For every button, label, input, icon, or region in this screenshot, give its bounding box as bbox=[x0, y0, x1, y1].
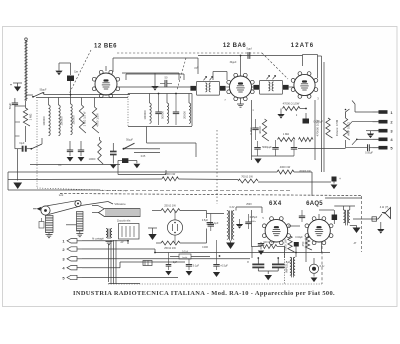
capacitor C2 bbox=[22, 146, 24, 152]
svg-text:50μμF: 50μμF bbox=[126, 139, 133, 142]
capacitor C7 bbox=[173, 111, 179, 113]
wire grid bus bbox=[44, 94, 131, 96]
capacitor C16 bbox=[367, 144, 369, 151]
jack bbox=[370, 218, 378, 220]
svg-text:1μF: 1μF bbox=[173, 261, 178, 264]
junction dots bbox=[70, 94, 72, 96]
ground G17 bbox=[377, 229, 384, 234]
wire PT right bbox=[235, 207, 237, 211]
svg-text:20000: 20000 bbox=[183, 111, 187, 119]
ground G6 bbox=[237, 103, 244, 105]
svg-text:4700 1/2W: 4700 1/2W bbox=[95, 113, 99, 127]
wire y148 bbox=[298, 148, 346, 150]
capacitor C6 bbox=[155, 111, 161, 113]
wire box inner bbox=[126, 73, 184, 75]
resistor R3 bbox=[92, 107, 99, 133]
ground G15 bbox=[236, 224, 243, 229]
dotted box left edge bbox=[36, 100, 38, 188]
capacitor C5 bbox=[164, 80, 166, 87]
resistor R7 h bbox=[278, 138, 296, 142]
svg-text:0.05μF: 0.05μF bbox=[365, 152, 373, 155]
svg-text:NμF: NμF bbox=[20, 141, 25, 145]
svg-text:12 BE6: 12 BE6 bbox=[94, 43, 117, 49]
switch S1a bbox=[33, 93, 43, 98]
capacitor C12 v bbox=[252, 127, 258, 129]
ground G18 bbox=[264, 275, 272, 280]
svg-text:Sμμf: Sμμf bbox=[246, 47, 252, 51]
svg-text:6AQ5: 6AQ5 bbox=[306, 201, 323, 207]
terminal T4r bbox=[379, 138, 388, 142]
wire right verticals bbox=[321, 56, 323, 172]
wire bus E bbox=[8, 165, 30, 167]
resistor R6 v bbox=[262, 119, 269, 141]
wire bus B right bbox=[258, 181, 331, 183]
capacitor C20 bbox=[245, 221, 251, 223]
dash shield right bbox=[361, 196, 363, 252]
wire to ground arrow bbox=[17, 149, 19, 181]
dotted osc box bbox=[127, 94, 129, 127]
svg-text:100000: 100000 bbox=[42, 116, 46, 126]
wire T2r bbox=[352, 121, 373, 123]
wire R1 top bbox=[15, 105, 26, 107]
resistor R12 inline bbox=[277, 170, 294, 174]
dashed vertical gang bbox=[216, 130, 218, 204]
dash box power bbox=[108, 283, 322, 285]
electrolytic bank bbox=[252, 263, 264, 265]
ground G2 bbox=[55, 71, 62, 76]
resistor R11 v bbox=[343, 118, 350, 140]
switch S1b bbox=[31, 144, 42, 149]
wire t2 bbox=[82, 248, 155, 250]
wire top bus bbox=[198, 55, 303, 57]
svg-text:Zoccolo vibr.: Zoccolo vibr. bbox=[117, 220, 131, 223]
wire mid to T5 bbox=[166, 150, 340, 152]
tube V3 12AT6 bbox=[294, 74, 315, 95]
coil L5 bbox=[167, 103, 169, 123]
capacitor C-ant block bbox=[67, 76, 74, 82]
resistor R1 1M bbox=[23, 108, 30, 126]
ground G14 big bbox=[226, 243, 235, 250]
wire t4 bbox=[82, 267, 120, 269]
ground G16 bbox=[353, 228, 361, 234]
ground G12 bbox=[106, 241, 113, 243]
dial pulley big bbox=[41, 206, 50, 215]
wire OT out bbox=[351, 219, 353, 225]
transformer PT bbox=[227, 211, 229, 240]
wire bus B2 bbox=[179, 178, 239, 181]
svg-text:470000 1/2W: 470000 1/2W bbox=[316, 119, 320, 136]
coil L6 bbox=[189, 103, 191, 123]
ground G11 bbox=[76, 233, 83, 235]
resistor R10 v bbox=[326, 118, 333, 138]
wire V4-V5 bbox=[288, 230, 308, 232]
svg-text:20000 1W: 20000 1W bbox=[299, 170, 311, 173]
capacitor C28 block bbox=[122, 158, 128, 163]
svg-text:30μμF: 30μμF bbox=[230, 61, 237, 64]
coil L2 100000 bbox=[59, 105, 61, 136]
wire OT top bbox=[342, 206, 344, 210]
wire 6X4 box bbox=[251, 210, 253, 247]
wire IF1 to V2 bbox=[226, 86, 229, 88]
resistor R2 1M bbox=[79, 105, 86, 133]
wire V2 top stub bbox=[240, 56, 242, 77]
resistor RB inline bbox=[162, 177, 179, 181]
svg-text:1 MΩ 1/2 W: 1 MΩ 1/2 W bbox=[82, 111, 86, 126]
capacitor Cl1 bbox=[78, 149, 84, 151]
svg-text:250: 250 bbox=[301, 241, 305, 246]
resistor R14 h bbox=[161, 209, 180, 213]
capacitor C23b bbox=[166, 264, 172, 266]
capacitor C25 bbox=[258, 243, 264, 245]
wire osc bottom bus bbox=[128, 126, 192, 128]
svg-text:+0.5μF: +0.5μF bbox=[220, 265, 228, 268]
terminal T3r bbox=[379, 129, 388, 133]
wire bus A right bbox=[294, 171, 312, 173]
wire 6aq5 top bend bbox=[325, 195, 362, 197]
wire G3 bus bbox=[122, 72, 179, 74]
wire box top bbox=[113, 57, 198, 59]
wire T1r bbox=[355, 111, 373, 113]
svg-text:0.5 A: 0.5 A bbox=[182, 249, 188, 253]
wire left edge verticals bbox=[7, 172, 9, 190]
capacitor C27 electrolytic bbox=[110, 151, 117, 153]
wire V1 top bbox=[105, 66, 107, 71]
wire S2 out bbox=[124, 148, 149, 150]
wire bus A bbox=[8, 171, 277, 173]
wire V5 top bbox=[318, 214, 320, 219]
svg-text:50μF: 50μF bbox=[8, 102, 12, 109]
capacitor C21 bbox=[299, 215, 305, 217]
svg-text:tutti: tutti bbox=[59, 193, 64, 197]
svg-text:6.3V: 6.3V bbox=[230, 206, 235, 209]
svg-text:10000: 10000 bbox=[89, 158, 96, 161]
svg-text:INDUSTRIA RADIOTECNICA ITALI: INDUSTRIA RADIOTECNICA ITALIANA - Mod. R… bbox=[73, 290, 335, 297]
svg-text:700 Ω 1W: 700 Ω 1W bbox=[241, 175, 253, 179]
ground left of antenna bbox=[14, 87, 21, 92]
wire left verticals top bbox=[48, 98, 50, 106]
transformer OT bbox=[343, 210, 345, 223]
wire osc top bbox=[128, 93, 192, 95]
capacitor C19 bbox=[208, 224, 214, 226]
dial belt bbox=[43, 201, 76, 207]
wire IF2 to V3 bbox=[289, 86, 294, 88]
svg-text:Vibratore: Vibratore bbox=[114, 202, 126, 206]
wire bus C bbox=[8, 189, 100, 191]
wire t3 bbox=[82, 258, 250, 260]
dial arrow bbox=[37, 207, 42, 211]
capacitor C15 bbox=[291, 147, 297, 149]
svg-text:50μμF: 50μμF bbox=[40, 89, 47, 92]
wire V3 box bbox=[303, 54, 318, 56]
speaker bbox=[382, 208, 391, 219]
ground G8 bbox=[254, 159, 261, 164]
ground G7 bbox=[277, 114, 284, 119]
capacitor C1 bbox=[12, 102, 18, 104]
dashed diag mid bbox=[177, 58, 186, 90]
capacitor C24 bbox=[213, 264, 219, 266]
IF2 transformer bbox=[253, 85, 259, 90]
ground G9 bbox=[367, 134, 374, 139]
svg-text:0.1μF: 0.1μF bbox=[193, 265, 200, 268]
svg-text:12 BA6: 12 BA6 bbox=[223, 43, 247, 49]
wire G2 stem bbox=[70, 63, 72, 75]
svg-text:12AT6: 12AT6 bbox=[291, 43, 315, 49]
wire bottom right bend bbox=[321, 246, 323, 284]
capacitor C18 bbox=[207, 222, 213, 224]
svg-text:6X4: 6X4 bbox=[269, 201, 282, 207]
tube V4 6X4 bbox=[265, 219, 288, 242]
svg-text:47000 Ω 1/2W: 47000 Ω 1/2W bbox=[283, 102, 300, 106]
svg-text:250V: 250V bbox=[246, 203, 252, 206]
wire T5r long bbox=[346, 147, 368, 149]
svg-text:+: + bbox=[339, 177, 341, 181]
wire bus D dashes bbox=[60, 194, 362, 196]
svg-text:Potenz. 0.5M: Potenz. 0.5M bbox=[335, 119, 339, 136]
svg-text:1 MΩ: 1 MΩ bbox=[283, 132, 289, 136]
wire power verticals bbox=[295, 242, 297, 257]
tube V2 12BA6 bbox=[230, 76, 252, 98]
wire y97 left bbox=[36, 97, 128, 99]
dashed gang link left bbox=[69, 50, 91, 94]
terminal T1r bbox=[379, 110, 388, 114]
wire t1 bbox=[82, 240, 128, 242]
coil L1 100000 bbox=[49, 105, 51, 136]
svg-text:250 Ω 1W: 250 Ω 1W bbox=[164, 204, 176, 208]
resistor R4 bbox=[98, 140, 103, 164]
dashed gang diag right bbox=[262, 53, 288, 79]
wire cap down bbox=[70, 81, 72, 95]
choke L7 bbox=[290, 257, 292, 275]
resistor R5 h bbox=[283, 107, 301, 111]
terminal T2r bbox=[379, 120, 388, 124]
resistor R18 v bbox=[305, 236, 312, 250]
box bl bbox=[119, 224, 140, 240]
dial link right bbox=[81, 202, 108, 206]
svg-text:fusib.: fusib. bbox=[182, 257, 188, 259]
dashed gang top bbox=[117, 52, 262, 54]
tube V1 12BE6 bbox=[95, 73, 117, 95]
svg-text:5000 1W: 5000 1W bbox=[165, 172, 176, 176]
wire fuse bbox=[170, 256, 179, 258]
resistor R8 h bbox=[299, 138, 314, 142]
svg-text:IMPED.: IMPED. bbox=[285, 263, 289, 273]
ground G10 bbox=[46, 234, 53, 236]
resistor R16 h bbox=[261, 245, 277, 249]
svg-text:0.02μF: 0.02μF bbox=[295, 236, 303, 239]
wire t5 bbox=[82, 277, 178, 279]
svg-text:100000: 100000 bbox=[143, 110, 147, 120]
capacitor C26 block bbox=[294, 242, 299, 247]
wire T4r bbox=[357, 138, 373, 140]
capacitor C10 top bbox=[247, 52, 249, 59]
resistor R15 h bbox=[161, 241, 180, 245]
wire osc drop bbox=[146, 127, 148, 144]
wire AT6 box bbox=[251, 100, 253, 160]
transformer T2 bbox=[106, 229, 108, 238]
svg-text:0.05: 0.05 bbox=[141, 156, 146, 158]
svg-text:250 Ω 1W: 250 Ω 1W bbox=[164, 246, 176, 250]
svg-text:AP: AP bbox=[120, 241, 124, 244]
capacitor C22 block bbox=[332, 215, 338, 221]
wire V1 to IF1 bbox=[119, 86, 190, 88]
cable bundle bbox=[110, 240, 112, 284]
svg-text:5000 1W: 5000 1W bbox=[284, 239, 288, 251]
svg-text:6.3v: 6.3v bbox=[320, 265, 325, 268]
lamp bbox=[309, 264, 318, 273]
wire box bl bbox=[117, 161, 119, 175]
dotted box bottom bbox=[37, 188, 128, 191]
dial pulley small bbox=[75, 200, 81, 206]
capacitor C11 block bbox=[303, 119, 310, 124]
capacitor C13 bbox=[254, 147, 260, 149]
wire pot link bbox=[61, 212, 63, 224]
svg-text:4 Ω (?): 4 Ω (?) bbox=[380, 205, 389, 209]
tone pot bbox=[77, 212, 84, 232]
wire R11 top hook bbox=[346, 109, 350, 118]
volume pot bbox=[46, 216, 54, 233]
ground arrow big left bbox=[13, 183, 22, 190]
wire bus B bbox=[8, 178, 162, 181]
svg-text:Al contagiri: Al contagiri bbox=[92, 238, 104, 241]
wire C2 left bbox=[14, 122, 16, 149]
svg-text:1 MΩ: 1 MΩ bbox=[29, 114, 33, 121]
fuse 0.5A bbox=[179, 254, 191, 259]
capacitor C14 bbox=[272, 147, 278, 149]
wire V2 to IF2 bbox=[252, 86, 254, 88]
ground G13 bbox=[148, 234, 156, 240]
IF1 transformer bbox=[190, 86, 196, 91]
wire vibr leads bbox=[92, 212, 99, 214]
wire loop bbox=[152, 210, 161, 212]
svg-text:0.5μF: 0.5μF bbox=[202, 219, 209, 222]
vibrator bbox=[99, 209, 141, 217]
wire IF1 top bbox=[213, 71, 227, 73]
svg-text:100000: 100000 bbox=[71, 115, 75, 125]
capacitor C23 bbox=[186, 264, 192, 266]
resistor R13 inline bbox=[238, 179, 258, 183]
svg-text:0.002: 0.002 bbox=[249, 127, 253, 134]
svg-text:0.006: 0.006 bbox=[202, 247, 208, 249]
ground G19 bbox=[311, 278, 318, 283]
svg-text:4000 1W: 4000 1W bbox=[280, 165, 291, 169]
wire left bus mid bbox=[30, 164, 120, 166]
connector small bbox=[143, 261, 152, 266]
wire elec mid bbox=[257, 267, 259, 271]
tube V5 6AQ5 bbox=[308, 219, 331, 242]
antenna rod bbox=[25, 40, 27, 101]
svg-text:μμF: μμF bbox=[194, 68, 199, 70]
capacitor Cl0 bbox=[67, 149, 73, 151]
coil L4 bbox=[150, 103, 152, 123]
wire antenna base bbox=[26, 94, 34, 96]
svg-text:100 Ω 1W: 100 Ω 1W bbox=[263, 240, 275, 244]
ground G3 bbox=[151, 86, 158, 91]
svg-text:5000μμF: 5000μμF bbox=[262, 146, 272, 149]
svg-text:100000: 100000 bbox=[59, 116, 63, 126]
terminal T5r bbox=[379, 146, 388, 150]
wire PT top bbox=[207, 213, 225, 215]
coil L3 100000 bbox=[71, 104, 73, 135]
resistor R17 v bbox=[288, 236, 295, 252]
svg-text:0.05μF: 0.05μF bbox=[250, 216, 258, 219]
switch S2 bbox=[124, 143, 135, 149]
wire bundle bottom bbox=[109, 283, 141, 285]
tube V6 small bbox=[167, 220, 182, 235]
capacitor C17 block bbox=[332, 177, 337, 182]
